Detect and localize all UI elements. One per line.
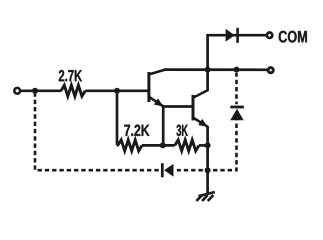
terminal input (left, open circle) [14,88,20,94]
transistor Q1 (NPN, first of Darlington pair) [149,70,166,107]
label 2.7K [59,70,82,81]
diode D3 (collector-base diode, solid symbol on dashed branch) [230,107,244,120]
wire vertical Q2 base node down to resistor row [162,107,165,146]
node junction dot Q1 base / R2 branch [114,88,120,94]
terminal COM (open circle) [267,33,272,38]
wire dashed right branch vertical upper [235,73,238,104]
resistor R2 7.2K zigzag [118,140,142,151]
node junction dot input/dashed branch [32,88,38,94]
wire dashed input branch down and along bottom [35,93,159,170]
diode D1 (series diode to COM) [226,28,238,43]
resistor R3 3K zigzag [175,140,199,151]
wire resistor row left stub [117,144,119,147]
terminal output (right, open circle) [268,68,273,73]
diode D2 (feedback diode pointing left, solid) [162,163,173,177]
node junction dot collector rail / dashed diode branch [234,67,240,73]
wire input terminal to resistor R1 [21,89,62,92]
wire collector rail [164,68,268,71]
node junction dot emitter / resistor row [205,142,211,148]
label COM [279,31,307,43]
node junction dot collector rail / top riser [205,67,211,73]
label 3K [176,125,187,137]
transistor Q2 (NPN, second of Darlington pair) [193,90,208,127]
resistor R1 2.7K zigzag [61,85,85,96]
ground (chassis ground, slanted hatch) [196,192,215,201]
wire R3 to emitter line [199,144,208,147]
wire R1 to Q1 base [85,89,147,92]
wire vertical base node down to resistor row [116,91,119,146]
wire Q2 emitter vertical down to ground [206,126,209,195]
node junction dot resistor row / Q2 base branch [160,142,166,148]
wire between R2 and R3 [142,144,175,147]
node junction dot emitter / dashed row [205,167,211,173]
wire Q1 emitter node to Q2 base [163,105,191,108]
wire riser to top rail with corner [208,35,267,91]
wire dashed bottom row right segment with corner up [177,121,237,171]
label 7.2K [124,125,149,136]
